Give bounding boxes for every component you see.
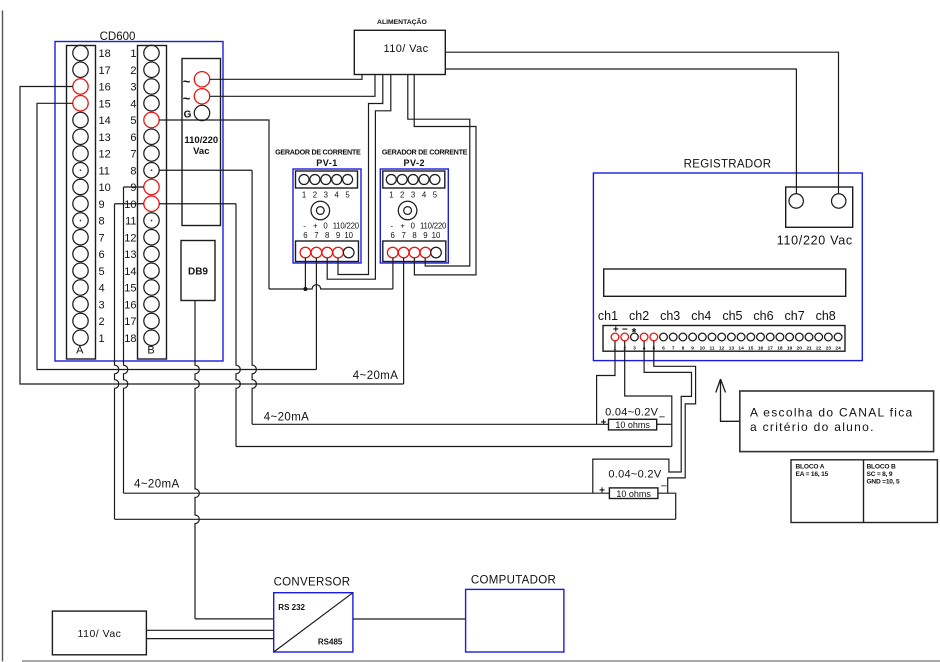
terminal B5 (144, 112, 159, 127)
svg-text:1: 1 (302, 191, 306, 200)
PV-2 terminal 3 (408, 175, 418, 185)
svg-text:10 ohms: 10 ohms (616, 489, 651, 499)
svg-text:ch6: ch6 (753, 309, 773, 323)
svg-text:~: ~ (183, 74, 191, 89)
wire supply to CD600 phase1 (210, 75, 362, 80)
recorder input terminal 11 (708, 333, 716, 341)
svg-text:3: 3 (130, 82, 136, 94)
terminal A9 (73, 196, 88, 211)
svg-text:a critério do aluno.: a critério do aluno. (750, 420, 875, 434)
recorder input terminal 19 (786, 333, 794, 341)
wire PV-2 pin7 down to 4-20mA line2 (403, 258, 405, 384)
recorder input terminal 22 (815, 333, 823, 341)
svg-text:+: + (400, 222, 405, 231)
svg-text:4~20mA: 4~20mA (353, 370, 399, 382)
svg-text:11: 11 (99, 165, 110, 177)
terminal A1 (73, 330, 88, 345)
svg-text:16: 16 (124, 299, 136, 311)
svg-text:16: 16 (758, 345, 764, 351)
PV-2 terminal 1 (386, 175, 396, 185)
svg-text:110/220: 110/220 (333, 222, 360, 231)
svg-text:14: 14 (738, 345, 744, 351)
svg-text:3: 3 (633, 345, 636, 351)
terminal B13 (144, 246, 159, 261)
recorder power terminal 2 (832, 194, 846, 208)
svg-text:1: 1 (99, 333, 105, 345)
terminal A14 (73, 112, 88, 127)
svg-text:110/ Vac: 110/ Vac (384, 43, 429, 55)
recorder input terminal 7 (669, 333, 677, 341)
terminal B8 (144, 163, 159, 178)
terminal B7 (144, 146, 159, 161)
svg-text:2: 2 (313, 191, 317, 200)
svg-text:−: − (659, 412, 665, 424)
recorder input terminal 4 (640, 333, 648, 341)
recorder input terminal 23 (825, 333, 833, 341)
svg-text:110/220: 110/220 (184, 135, 218, 146)
svg-text:ch4: ch4 (691, 309, 711, 323)
terminal B11 (144, 213, 159, 228)
wire supply to PV-1 pin8 (327, 75, 391, 280)
svg-text:ch1: ch1 (598, 309, 618, 323)
recorder input terminal 6 (660, 333, 668, 341)
svg-text:16: 16 (99, 82, 111, 94)
svg-text:0.04~0.2V: 0.04~0.2V (605, 407, 659, 419)
table divider (863, 460, 865, 523)
svg-text:5: 5 (433, 191, 438, 200)
current generator PV-1 outline (293, 169, 361, 263)
svg-text:1: 1 (130, 48, 136, 60)
power supply ALIMENTACAO box (354, 30, 445, 74)
power terminal G (194, 105, 209, 120)
terminal strip A outline (67, 46, 96, 360)
svg-text:5: 5 (99, 266, 105, 278)
terminal A2 (73, 313, 88, 328)
svg-text:*: * (632, 326, 637, 340)
svg-text:21: 21 (806, 345, 812, 351)
terminal A8 (73, 213, 88, 228)
svg-text:10: 10 (700, 345, 706, 351)
recorder power terminal 1 (789, 194, 803, 208)
svg-text:110/220 Vac: 110/220 Vac (777, 234, 853, 248)
terminal A12 (73, 146, 88, 161)
recorder input terminal strip (603, 326, 845, 352)
svg-text:24: 24 (835, 345, 841, 351)
svg-text:A: A (76, 345, 84, 357)
terminal B18 (144, 330, 159, 345)
svg-text:Vac: Vac (193, 146, 209, 157)
terminal B9 (144, 179, 159, 194)
recorder input terminal 5 (650, 333, 658, 341)
svg-text:22: 22 (816, 345, 822, 351)
wire supply to PV-2 pin9 (408, 75, 470, 267)
svg-text:4: 4 (130, 98, 136, 110)
terminal A18 (73, 45, 88, 60)
resistor R2 box (609, 488, 658, 499)
PV-1 terminal 5 (343, 175, 353, 185)
svg-text:0.04~0.2V: 0.04~0.2V (608, 469, 662, 481)
svg-text:13: 13 (124, 249, 136, 261)
PV-2 adjust knob outer (398, 201, 417, 220)
svg-text:11: 11 (125, 216, 136, 228)
current generator PV-2 outline (380, 169, 448, 263)
PV-1 terminal 3 (321, 175, 331, 185)
wire DB9 drop to converter (195, 301, 199, 619)
wire supply to converter line1 (146, 629, 273, 631)
PV-2 adjust knob inner (404, 207, 412, 215)
svg-text:13: 13 (99, 132, 111, 144)
terminal A6 (73, 246, 88, 261)
svg-text:EA = 16, 15: EA = 16, 15 (796, 471, 829, 478)
PV-1 terminal 10 (343, 247, 354, 258)
svg-text:ch8: ch8 (816, 309, 836, 323)
svg-text:~: ~ (183, 91, 191, 106)
wire R1 plus line (252, 423, 608, 425)
PV-2 terminal 2 (397, 175, 407, 185)
terminal A5 (73, 263, 88, 278)
terminal B6 (144, 129, 159, 144)
svg-text:BLOCO A: BLOCO A (796, 463, 825, 470)
svg-text:3: 3 (411, 191, 415, 200)
wire supply to CD600 phase2 (210, 75, 375, 97)
svg-text:12: 12 (99, 149, 111, 161)
svg-text:-: - (303, 222, 306, 231)
svg-text:8: 8 (682, 345, 685, 351)
svg-text:18: 18 (777, 345, 783, 351)
PV-2 terminal 7 (398, 247, 409, 258)
DB9 connector box (181, 241, 215, 301)
svg-text:6: 6 (130, 132, 136, 144)
wire recorder ch1 minus to R1 (625, 341, 672, 447)
svg-text:18: 18 (124, 333, 136, 345)
recorder input terminal 8 (679, 333, 687, 341)
center mark A11 (80, 169, 82, 171)
recorder input terminal 21 (805, 333, 813, 341)
recorder input terminal 18 (776, 333, 784, 341)
svg-text:10: 10 (99, 182, 111, 194)
recorder input terminal 13 (728, 333, 736, 341)
wire DB9 to converter horizontal (195, 618, 274, 620)
converter diagonal divider (274, 593, 353, 652)
PV-2 terminal 6 (387, 247, 398, 258)
PV-1 upper terminal block (296, 171, 358, 188)
svg-text:0: 0 (323, 222, 328, 231)
terminal B4 (144, 96, 159, 111)
terminal B10 (144, 196, 159, 211)
svg-text:4~20mA: 4~20mA (264, 412, 310, 424)
wire B8 drop to R1 plus line (252, 170, 256, 424)
terminal A17 (73, 62, 88, 77)
wire B9 drop to R2 plus line (124, 187, 128, 493)
svg-text:4: 4 (335, 191, 340, 200)
svg-text:6: 6 (303, 231, 307, 240)
wire supply to PV-2 pin8 (414, 75, 476, 275)
svg-text:1: 1 (389, 191, 393, 200)
svg-text:RS 232: RS 232 (278, 603, 305, 612)
svg-text:-: - (390, 222, 393, 231)
wire B5 to PV-1 pin6 and PV-2 pin6 bus (269, 285, 393, 289)
svg-text:20: 20 (797, 345, 803, 351)
svg-text:8: 8 (130, 165, 136, 177)
svg-text:GERADOR DE CORRENTE: GERADOR DE CORRENTE (382, 148, 468, 157)
svg-text:A escolha do CANAL fica: A escolha do CANAL fica (750, 406, 914, 420)
CD600 power entry box 110/220Vac (182, 59, 221, 226)
svg-text:12: 12 (124, 232, 136, 244)
svg-text:+: + (313, 222, 318, 231)
recorder input terminal 15 (747, 333, 755, 341)
recorder input terminal 3 (631, 333, 639, 341)
svg-text:ch2: ch2 (629, 309, 649, 323)
recorder input terminal 10 (698, 333, 706, 341)
svg-text:7: 7 (99, 232, 105, 244)
recorder REGISTRADOR outline (593, 173, 862, 361)
recorder input terminal 1 (611, 333, 619, 341)
CD600 unit outline (55, 42, 223, 362)
junction dot PV-1 pin6 on B5 bus (303, 287, 307, 291)
PV-1 terminal 2 (310, 175, 320, 185)
svg-text:10: 10 (124, 199, 136, 211)
svg-text:9: 9 (423, 231, 427, 240)
svg-text:10: 10 (432, 231, 441, 240)
wire B10 drop to R2 return line (115, 204, 119, 520)
svg-text:PV-2: PV-2 (404, 158, 426, 168)
svg-text:PV-1: PV-1 (316, 158, 338, 168)
center mark A8 (80, 220, 82, 222)
PV-2 terminal 9 (420, 247, 431, 258)
svg-text:2: 2 (130, 65, 136, 77)
svg-text:2: 2 (99, 316, 105, 328)
svg-text:11: 11 (709, 345, 714, 351)
svg-text:17: 17 (768, 345, 774, 351)
svg-text:BLOCO B: BLOCO B (867, 463, 896, 470)
terminal B17 (144, 313, 159, 328)
svg-text:7: 7 (314, 231, 318, 240)
svg-text:ch7: ch7 (785, 309, 805, 323)
recorder input terminal 9 (689, 333, 697, 341)
wire R2 minus return line (115, 518, 676, 520)
center mark B8 (151, 169, 153, 171)
terminal B2 (144, 62, 159, 77)
wire converter to computer (353, 618, 466, 620)
svg-text:4: 4 (422, 191, 427, 200)
PV-1 terminal 7 (311, 247, 322, 258)
svg-text:10 ohms: 10 ohms (615, 420, 650, 430)
terminal strip B outline (138, 46, 167, 360)
svg-text:15: 15 (99, 98, 111, 110)
terminal A3 (73, 297, 88, 312)
svg-text:9: 9 (130, 182, 136, 194)
recorder input terminal 2 (621, 333, 629, 341)
terminal A10 (73, 179, 88, 194)
note box (740, 391, 934, 452)
svg-text:B: B (147, 345, 154, 357)
svg-text:4~20mA: 4~20mA (134, 479, 180, 491)
terminal B16 (144, 297, 159, 312)
svg-text:110/220: 110/220 (420, 222, 447, 231)
terminal B15 (144, 280, 159, 295)
svg-text:8: 8 (99, 216, 105, 228)
wire supply to recorder terminal 2 (445, 52, 838, 194)
svg-text:6: 6 (99, 249, 105, 261)
svg-text:GERADOR DE CORRENTE: GERADOR DE CORRENTE (275, 148, 361, 157)
svg-text:17: 17 (99, 65, 111, 77)
wire B10 right horizontal (159, 203, 236, 205)
PV-1 terminal 6 (300, 247, 311, 258)
computer box (466, 589, 564, 652)
svg-text:14: 14 (124, 266, 136, 278)
wire recorder ch2 plus to R2 (593, 341, 692, 493)
svg-text:15: 15 (124, 283, 136, 295)
terminal A7 (73, 230, 88, 245)
svg-text:−: − (661, 481, 667, 493)
wire R2 plus line (124, 492, 610, 494)
PV-2 terminal 5 (430, 175, 440, 185)
wire B10 left stub (115, 203, 144, 205)
svg-text:RS485: RS485 (318, 638, 343, 647)
svg-text:3: 3 (324, 191, 328, 200)
resistor R1 box (609, 419, 657, 430)
wire supply to PV-1 pin9 (338, 75, 383, 275)
wire R2 minus stub (658, 493, 676, 519)
terminal A11 (73, 163, 88, 178)
svg-text:10: 10 (344, 231, 353, 240)
recorder power terminal box (786, 187, 853, 227)
svg-text:19: 19 (787, 345, 793, 351)
drawing frame left border (2, 11, 4, 662)
svg-text:0: 0 (411, 222, 416, 231)
svg-text:6: 6 (391, 231, 395, 240)
converter RS232-RS485 box (274, 593, 353, 652)
converter power supply box (52, 611, 146, 655)
wire B9 left stub (124, 186, 144, 188)
drawing frame bottom border (22, 660, 940, 662)
PV-1 adjust knob outer (311, 201, 330, 220)
svg-text:6: 6 (662, 345, 665, 351)
recorder input terminal 14 (737, 333, 745, 341)
svg-text:G: G (184, 110, 192, 121)
power terminal L2 (194, 89, 209, 104)
PV-2 terminal 8 (409, 247, 420, 258)
terminal A13 (73, 129, 88, 144)
svg-text:12: 12 (719, 345, 725, 351)
wire R1 minus stub (657, 423, 672, 425)
terminal A15 (73, 96, 88, 111)
PV-2 terminal 10 (431, 247, 442, 258)
wire recorder ch1 plus to R1 (597, 341, 615, 424)
PV-1 terminal 1 (299, 175, 309, 185)
recorder input terminal 17 (766, 333, 774, 341)
recorder input terminal 20 (795, 333, 803, 341)
terminal A16 (73, 79, 88, 94)
wire A16 to PV-2 pin7 (4-20mA loop) (20, 87, 404, 385)
svg-text:7: 7 (130, 149, 136, 161)
terminal B3 (144, 79, 159, 94)
svg-text:2: 2 (400, 191, 404, 200)
PV-1 adjust knob inner (316, 207, 324, 215)
recorder input terminal 16 (757, 333, 765, 341)
svg-text:+: + (601, 418, 607, 429)
svg-text:7: 7 (672, 345, 675, 351)
wire B10 drop to R1 return line (236, 204, 240, 447)
wire B5 vertical drop (159, 120, 269, 289)
terminal B12 (144, 230, 159, 245)
svg-text:5: 5 (130, 115, 136, 127)
svg-text:GND =10, 5: GND =10, 5 (867, 478, 901, 485)
wire PV-1 pin7 down to 4-20mA line1 (315, 258, 317, 370)
svg-text:COMPUTADOR: COMPUTADOR (471, 575, 556, 587)
recorder display window (604, 269, 846, 296)
wire PV-2 pin6 down to bus (392, 258, 394, 289)
svg-text:18: 18 (99, 48, 111, 60)
wire A15 to PV-1 pin7 (4-20mA loop) (37, 103, 316, 369)
wire recorder ch2 minus to R2 (654, 341, 696, 493)
svg-text:5: 5 (345, 191, 350, 200)
recorder input terminal 12 (718, 333, 726, 341)
svg-text:+: + (599, 486, 605, 497)
svg-text:9: 9 (691, 345, 694, 351)
svg-text:3: 3 (99, 299, 105, 311)
svg-text:9: 9 (99, 199, 105, 211)
power terminal L1 (194, 72, 209, 87)
svg-text:7: 7 (402, 231, 406, 240)
svg-text:ch5: ch5 (722, 309, 742, 323)
PV-1 terminal 4 (332, 175, 342, 185)
terminal B14 (144, 263, 159, 278)
svg-text:ALIMENTAÇÃO: ALIMENTAÇÃO (377, 17, 427, 26)
svg-text:CONVERSOR: CONVERSOR (274, 577, 351, 589)
wire supply to converter line2 (146, 638, 273, 640)
svg-text:DB9: DB9 (188, 267, 208, 278)
svg-text:ch3: ch3 (660, 309, 680, 323)
terminal A4 (73, 280, 88, 295)
center mark B11 (151, 220, 153, 222)
svg-text:SC = 8, 9: SC = 8, 9 (867, 471, 893, 478)
svg-text:17: 17 (124, 316, 136, 328)
PV-1 terminal 8 (322, 247, 333, 258)
wire PV-1 pin6 down to bus (304, 258, 306, 289)
PV-2 upper terminal block (383, 171, 445, 188)
svg-text:8: 8 (325, 231, 329, 240)
wire supply to recorder terminal 1 (445, 69, 796, 194)
PV-1 terminal 9 (333, 247, 344, 258)
terminal B1 (144, 45, 159, 60)
svg-text:REGISTRADOR: REGISTRADOR (684, 159, 772, 171)
wire B8 horizontal (159, 169, 252, 171)
svg-text:14: 14 (99, 115, 111, 127)
svg-text:13: 13 (729, 345, 735, 351)
svg-text:110/ Vac: 110/ Vac (78, 628, 122, 640)
svg-text:9: 9 (336, 231, 340, 240)
svg-text:15: 15 (748, 345, 754, 351)
PV-1 lower terminal block (296, 241, 359, 262)
terminal assignment table (791, 460, 937, 523)
svg-text:4: 4 (99, 283, 105, 295)
wire R1 minus return line (236, 446, 672, 448)
svg-text:8: 8 (412, 231, 416, 240)
annotation arrow (716, 379, 740, 421)
PV-2 terminal 4 (419, 175, 429, 185)
svg-text:23: 23 (826, 345, 832, 351)
recorder input terminal 24 (834, 333, 842, 341)
PV-2 lower terminal block (383, 241, 446, 262)
